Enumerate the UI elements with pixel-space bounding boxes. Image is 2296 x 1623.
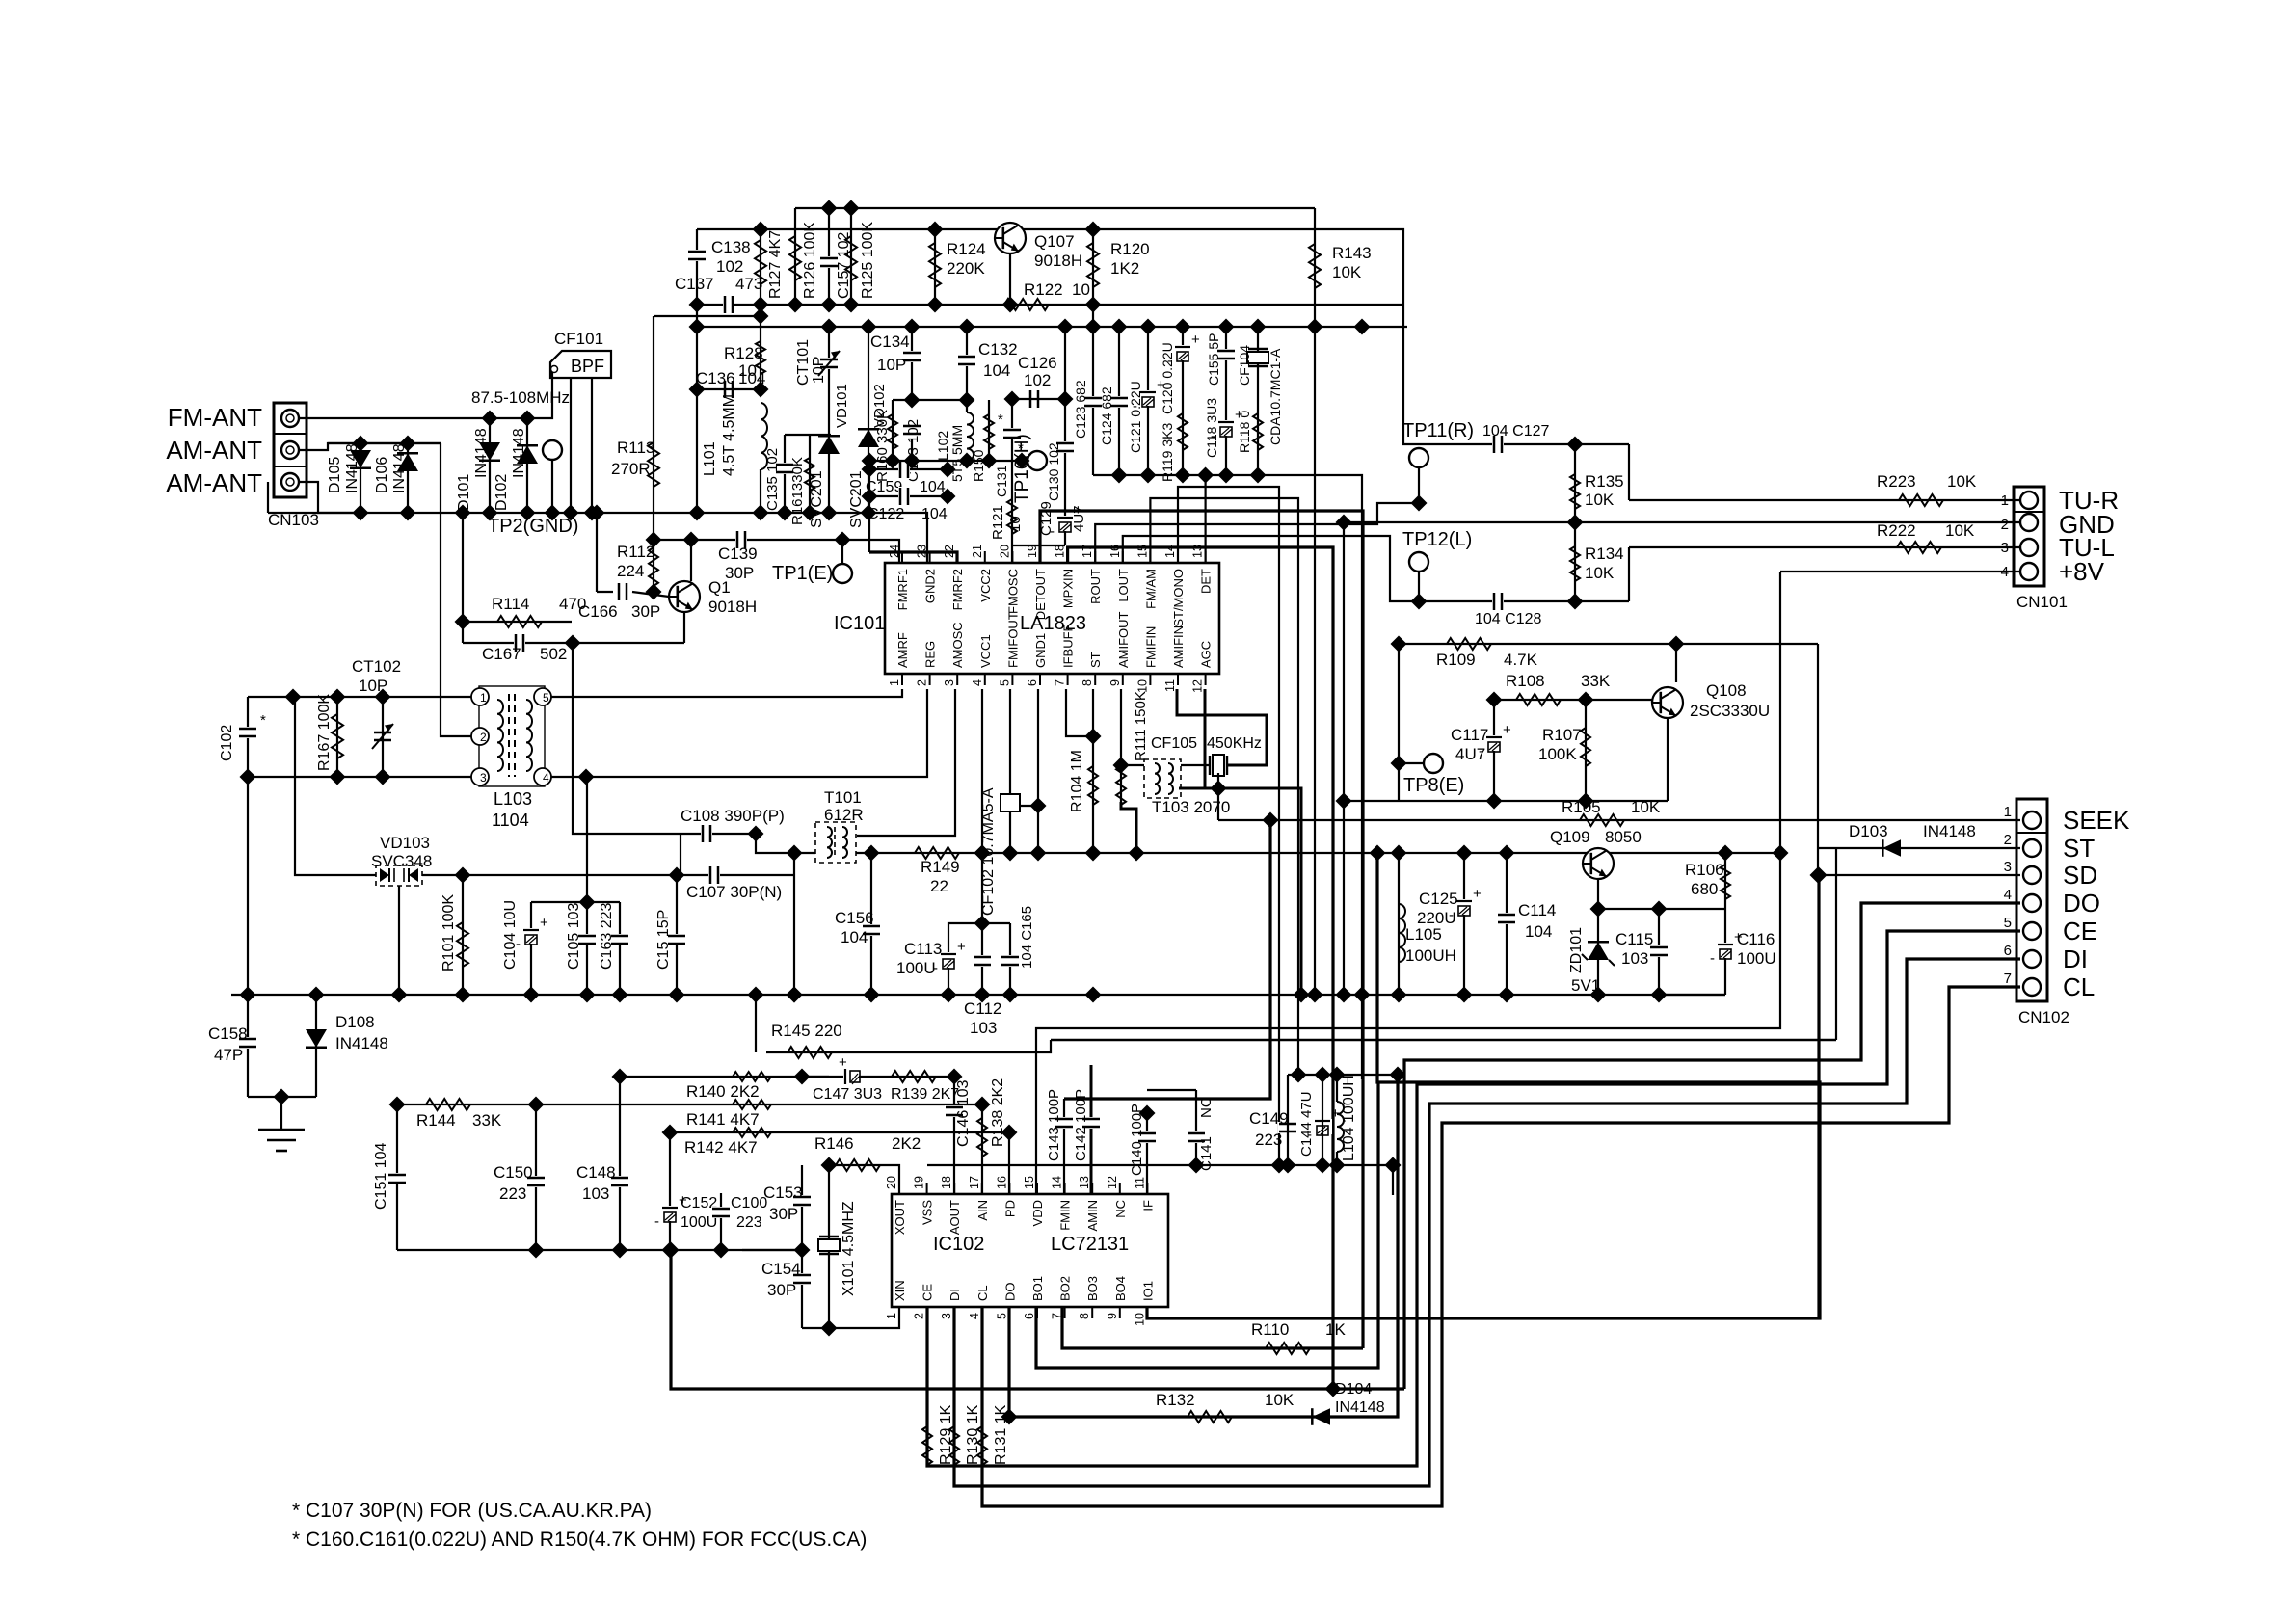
bus j1019 (974, 987, 991, 1003)
IC102 bottom pin 10 stub (1146, 1307, 1148, 1318)
IC102 top pin 16 stub (1008, 1183, 1010, 1194)
svg-text:X101 4.5MHZ: X101 4.5MHZ (841, 1201, 857, 1296)
connector CN101 (2014, 487, 2068, 611)
C108 wire (681, 833, 756, 835)
resistor R145 (771, 1022, 842, 1058)
c148 j (612, 1069, 628, 1085)
bbus 695 (662, 1242, 679, 1259)
resistor R143 (1309, 244, 1372, 288)
svg-text:R120: R120 (1110, 240, 1150, 258)
svg-text:VDD: VDD (1030, 1200, 1045, 1226)
svg-text:BO1: BO1 (1030, 1276, 1045, 1301)
svg-text:CL: CL (975, 1285, 990, 1301)
svg-text:R105: R105 (1562, 798, 1601, 816)
n415b (959, 392, 975, 409)
bus end (1659, 994, 1725, 996)
q108 base link (1651, 700, 1653, 703)
IC102 bottom pin 3 stub (953, 1307, 955, 1318)
svg-text:14: 14 (1051, 1176, 1064, 1189)
resistor R144 (416, 1099, 502, 1130)
svg-text:C114: C114 (1518, 901, 1556, 919)
R134 col (1574, 522, 1576, 601)
DETOUT wire (1040, 511, 1363, 1348)
CL path (982, 987, 2020, 1506)
ct101 bus (821, 505, 838, 521)
r149 ja (864, 845, 880, 862)
transformer T103 (1144, 759, 1230, 816)
svg-text:IN4148: IN4148 (511, 428, 527, 478)
IC U102 LC72131 body (885, 1176, 1168, 1326)
svg-text:DI: DI (2063, 945, 2088, 973)
svg-text:R142 4K7: R142 4K7 (684, 1138, 758, 1157)
c127 j (1567, 437, 1584, 453)
capacitor C113 (896, 939, 966, 977)
svg-text:17: 17 (968, 1176, 981, 1189)
D103 wire (1818, 847, 2020, 849)
resistor R132 (1156, 1391, 1295, 1423)
resistor R109 (1436, 638, 1538, 669)
svg-text:Q109: Q109 (1550, 828, 1590, 846)
svg-text:*: * (260, 712, 266, 729)
n414a (1004, 391, 1021, 408)
svg-text:* C160.C161(0.022U) AND R150(: * C160.C161(0.022U) AND R150(4.7K OHM) F… (292, 1529, 867, 1551)
capacitor C124 (1099, 386, 1129, 445)
svg-text:C113: C113 (904, 940, 942, 958)
svg-text:C120 0.22U: C120 0.22U (1160, 342, 1175, 414)
svg-text:473: 473 (735, 275, 762, 293)
capacitor C166 (578, 582, 660, 621)
svg-text:223: 223 (1255, 1131, 1282, 1149)
svg-text:6: 6 (1026, 679, 1039, 686)
capacitor C147 (813, 1054, 882, 1103)
svg-text:GND2: GND2 (923, 569, 938, 603)
C165 col (1009, 923, 1011, 995)
plus8 r109 (1773, 845, 1789, 862)
svg-text:223: 223 (499, 1184, 526, 1203)
svg-text:C123 682: C123 682 (1073, 380, 1088, 439)
C134 col (911, 327, 913, 352)
svg-text:C150: C150 (494, 1163, 533, 1182)
C135 col (784, 435, 786, 513)
svg-text:ROUT: ROUT (1088, 569, 1103, 604)
svg-text:10: 10 (1007, 516, 1024, 532)
svg-text:3: 3 (943, 679, 956, 686)
svg-text:IN4148: IN4148 (1923, 822, 1976, 840)
svg-text:22: 22 (943, 545, 956, 558)
svg-text:FMIN: FMIN (1058, 1200, 1073, 1231)
gnd stub (280, 1097, 282, 1130)
svg-text:R126 100K: R126 100K (802, 222, 818, 299)
connector CN103 (268, 403, 319, 529)
TU-R corner (1628, 444, 1630, 500)
capacitor C107 (686, 865, 782, 901)
gnd junction d106 (400, 505, 416, 521)
r109 right corner (1817, 644, 1819, 875)
tuning bottom right (543, 689, 927, 777)
rail C (697, 304, 1403, 306)
w1209 c (1329, 1157, 1346, 1174)
capacitor C102 (219, 712, 266, 761)
svg-text:C104 10U: C104 10U (502, 900, 519, 970)
resistor R114 (492, 595, 586, 627)
c153 j (794, 1242, 811, 1259)
capacitor C105 (566, 903, 597, 970)
wire 1441 (671, 1250, 1404, 1389)
x1318 col (1064, 820, 1270, 1099)
x1394 col (1343, 522, 1345, 995)
T103 in (1121, 764, 1144, 766)
svg-text:C130 102: C130 102 (1046, 442, 1061, 501)
IC102 top pin 11 stub (1146, 1183, 1148, 1194)
svg-text:5T5 5MM: 5T5 5MM (949, 425, 965, 482)
left col to gnd (247, 995, 249, 1097)
svg-text:TP12(L): TP12(L) (1402, 529, 1472, 550)
pin16 col (1008, 1132, 1010, 1194)
svg-text:2: 2 (2001, 517, 2009, 533)
svg-text:LA1823: LA1823 (1020, 613, 1086, 634)
svg-text:DO: DO (1002, 1283, 1017, 1302)
svg-text:8: 8 (1081, 679, 1094, 686)
t101 left col (793, 853, 795, 995)
svg-text:BO3: BO3 (1085, 1276, 1100, 1301)
capacitor C144 (1298, 1091, 1340, 1157)
LC72131 label (1051, 1234, 1129, 1255)
C156 col (870, 853, 872, 995)
capacitor C130 (1046, 441, 1075, 501)
IC101 top pin 20 stub (1011, 551, 1013, 563)
VD102 col (868, 327, 869, 513)
wire 1115 (1288, 1074, 1398, 1076)
w943 b (1651, 901, 1668, 918)
R120 col (1092, 229, 1094, 327)
TP1 stub (841, 540, 843, 564)
C117 col (1493, 700, 1495, 801)
SD wire (1819, 874, 2020, 876)
R145 wire (755, 995, 757, 1052)
cf105 j (1211, 781, 1227, 797)
bbus 748 (713, 1242, 730, 1259)
filter CF104 (1237, 345, 1268, 386)
capacitor C154 (761, 1260, 812, 1299)
C148 col (619, 1077, 621, 1250)
C166 wire2 (632, 592, 669, 597)
IC101 bottom pin 1 stub (901, 674, 903, 685)
svg-text:10P: 10P (811, 357, 827, 384)
resistor R108 (1506, 672, 1611, 705)
railC x1134 (1085, 297, 1102, 313)
svg-text:223: 223 (736, 1214, 762, 1231)
svg-text:18: 18 (940, 1176, 953, 1189)
L103 pin 3 (471, 768, 489, 785)
R143 col (1314, 208, 1316, 995)
diode D106 (374, 443, 418, 493)
svg-text:R167 100K: R167 100K (316, 694, 333, 771)
svg-text:R127 4K7: R127 4K7 (767, 230, 784, 299)
svg-text:IO1: IO1 (1140, 1281, 1155, 1301)
x1451 col (1398, 644, 1400, 801)
gnd junction d101 (482, 505, 498, 521)
w831 a (1336, 793, 1352, 810)
C166 left (596, 513, 598, 592)
note line2 (292, 1529, 867, 1551)
wire 1297 left (742, 1249, 802, 1251)
capacitor C128 (1475, 592, 1541, 627)
capacitor C159 (898, 460, 910, 479)
C127 wire (1419, 443, 1629, 445)
capacitor C156 (835, 909, 881, 946)
svg-text:5: 5 (995, 1313, 1008, 1319)
R125 col (850, 208, 852, 305)
BO1 wire (1036, 1082, 1378, 1368)
r108 jb (1578, 692, 1594, 708)
tp16 j (1014, 453, 1030, 469)
IC101 bottom pin 9 stub (1122, 674, 1124, 685)
svg-text:CN102: CN102 (2018, 1008, 2069, 1026)
svg-text:C142 100P: C142 100P (1073, 1089, 1089, 1161)
wire CF101 pin2 (570, 378, 572, 513)
q107 e j (1002, 297, 1019, 313)
gnd1 885 (1030, 845, 1047, 862)
diode D108 (306, 1013, 388, 1052)
svg-text:IC101: IC101 (834, 613, 885, 634)
CT101 col (828, 327, 830, 513)
VD103 gnd (398, 886, 400, 995)
wire D102 (526, 418, 528, 513)
w1209 a (1280, 1157, 1296, 1174)
resistor R129 (922, 1404, 954, 1465)
test point TP1(E) (772, 563, 852, 584)
svg-text:2: 2 (916, 679, 929, 686)
svg-text:IC102: IC102 (933, 1234, 984, 1255)
svg-text:9018H: 9018H (1034, 252, 1082, 270)
t101 feed j (787, 845, 803, 862)
svg-text:C118 3U3: C118 3U3 (1204, 398, 1219, 458)
capacitor C135 (764, 448, 794, 511)
svg-text:CT101: CT101 (795, 339, 812, 386)
bus j1451 (1391, 987, 1407, 1003)
c139 node (646, 532, 662, 548)
bottom bus (397, 1249, 802, 1251)
svg-text:C121 0.22U: C121 0.22U (1128, 381, 1143, 453)
c105 j (579, 894, 596, 911)
capacitor C108 (681, 807, 785, 843)
capacitor C125 (1417, 886, 1482, 927)
svg-text:CF105: CF105 (1151, 735, 1197, 752)
x101 bottom (802, 1307, 899, 1328)
gnd junction cf101a (563, 505, 579, 521)
svg-text:FMRF1: FMRF1 (895, 569, 910, 610)
svg-text:D106: D106 (374, 457, 390, 493)
w1115 1347 (1291, 1067, 1307, 1083)
svg-text:C15 15P: C15 15P (655, 910, 672, 970)
svg-text:104: 104 (841, 928, 868, 946)
label SVC201 b (848, 470, 865, 528)
svg-text:R144: R144 (416, 1111, 456, 1130)
c163 link (587, 901, 620, 903)
railC x970 (927, 297, 944, 313)
capacitor C129 (1038, 501, 1087, 540)
svg-text:C138: C138 (711, 238, 751, 256)
wire AM-ANT2 to gnd bus (299, 482, 360, 513)
capacitor C138 (687, 238, 751, 276)
svg-text:C125: C125 (1419, 890, 1458, 908)
TU-L wire (1629, 546, 2020, 548)
svg-text:R125 100K: R125 100K (860, 222, 876, 299)
t101 bus j (787, 987, 803, 1003)
node AM-ANT diode tap2 (400, 436, 416, 452)
R146 wire (829, 1165, 899, 1194)
svg-text:R135: R135 (1585, 472, 1624, 491)
gnd junction d102 (520, 505, 536, 521)
resistor R139 (891, 1071, 959, 1103)
tp12 stub (1418, 572, 1420, 601)
C167 wire (463, 642, 684, 644)
svg-text:R132: R132 (1156, 1391, 1195, 1409)
svg-text:MPXIN: MPXIN (1061, 569, 1076, 608)
R121 col (1011, 461, 1013, 545)
test point TP16(H) (1012, 434, 1047, 503)
C138 col (696, 229, 698, 513)
resistor R140 (686, 1072, 771, 1101)
rail885 1790 (1718, 845, 1734, 862)
bus j702 (669, 987, 685, 1003)
bus j480 (455, 987, 471, 1003)
filter CF105 (1151, 735, 1262, 776)
svg-text:5: 5 (543, 691, 549, 705)
C139 wire (654, 540, 899, 563)
gnd bus left (268, 513, 927, 563)
svg-text:R122: R122 (1024, 280, 1063, 299)
R111 col (1120, 689, 1122, 802)
ST col (1092, 689, 1094, 736)
resistor R104 (1069, 750, 1098, 812)
C105 col (586, 777, 588, 995)
svg-text:33K: 33K (472, 1111, 502, 1130)
n493 1305 (1250, 467, 1267, 484)
transistor Q1 (669, 578, 757, 616)
capacitor C127 (1482, 423, 1549, 454)
CN102 pin 2 num (2004, 832, 2012, 848)
R150 col (988, 400, 990, 461)
svg-text:R108: R108 (1506, 672, 1545, 690)
svg-text:+: + (1191, 332, 1200, 348)
svg-text:C139: C139 (718, 545, 758, 563)
L104 col (1336, 1075, 1338, 1102)
svg-text:2: 2 (2004, 832, 2012, 848)
svg-text:C148: C148 (576, 1163, 616, 1182)
rail885 1451 (1391, 845, 1407, 862)
railD j946 (904, 319, 921, 335)
svg-text:2: 2 (480, 731, 487, 744)
R142 wire (670, 1131, 1009, 1133)
svg-text:224: 224 (617, 562, 644, 580)
svg-text:R106: R106 (1685, 861, 1724, 879)
svg-text:SEEK: SEEK (2063, 806, 2130, 835)
bus j1658 (1590, 987, 1607, 1003)
C104 col (530, 902, 532, 995)
svg-text:R160 330K: R160 330K (874, 410, 891, 482)
svg-text:R139 2K7: R139 2K7 (891, 1086, 959, 1103)
n493 1227 (1175, 467, 1191, 484)
svg-text:10P: 10P (359, 677, 387, 695)
svg-text:10K: 10K (1585, 564, 1615, 582)
svg-text:AMIN: AMIN (1085, 1200, 1100, 1232)
svg-text:8050: 8050 (1605, 828, 1642, 846)
wire TP2 stub (551, 460, 553, 513)
R114 col (462, 513, 464, 643)
L103 pin 2 (471, 728, 489, 745)
wire am-ant diode row (328, 442, 441, 444)
VCC1 col (981, 689, 983, 995)
wire CF101 pin3 (591, 378, 593, 513)
bus j1721 (1651, 987, 1668, 1003)
capacitor C146 (945, 1080, 972, 1147)
svg-text:CE: CE (921, 1284, 935, 1301)
svg-text:IN4148: IN4148 (473, 428, 490, 478)
c147 wire (802, 1076, 829, 1078)
ROUT wire (1095, 503, 1419, 563)
svg-text:C115: C115 (1615, 930, 1653, 948)
capacitor C163 (599, 903, 629, 970)
svg-text:C154: C154 (761, 1260, 801, 1278)
LOUT wire (1123, 536, 1418, 601)
C157 col (828, 208, 830, 305)
IC101 label (834, 613, 885, 634)
IC101 bottom pin 8 stub (1094, 674, 1096, 685)
C100 col (720, 1193, 722, 1250)
IC101 bottom pin 5 stub (1011, 674, 1013, 685)
capacitor C122 (868, 487, 948, 522)
resistor R124 (929, 240, 986, 287)
c108 j (748, 826, 764, 842)
svg-text:23: 23 (916, 545, 929, 558)
svg-text:IF: IF (1140, 1200, 1155, 1211)
resistor R141 (686, 1100, 771, 1129)
svg-text:104: 104 (920, 479, 946, 495)
IC102 bottom pin 8 stub (1091, 1307, 1093, 1318)
IC102 top pin 20 stub (898, 1183, 900, 1194)
svg-text:R222: R222 (1877, 521, 1916, 540)
IC101 top pin 24 stub (901, 551, 903, 563)
railD j1364 (1307, 319, 1323, 335)
IC101 bottom pin 11 stub (1177, 674, 1179, 685)
svg-text:6: 6 (2004, 943, 2012, 959)
svg-text:BO2: BO2 (1058, 1276, 1073, 1301)
capacitor C137 (675, 275, 762, 314)
DET wire (1204, 475, 1206, 563)
c159 r (940, 462, 956, 478)
capacitor C153 (763, 1184, 812, 1223)
svg-text:470: 470 (559, 595, 586, 613)
capacitor C121 (1128, 377, 1165, 453)
railC x789 (753, 297, 769, 313)
c104 link (531, 901, 587, 903)
svg-text:2K2: 2K2 (892, 1134, 921, 1153)
CE path (927, 931, 2020, 1466)
D108 col (315, 995, 317, 1097)
svg-text:10: 10 (1133, 1313, 1146, 1326)
pin22 wire (869, 552, 957, 563)
svg-text:C137: C137 (675, 275, 714, 293)
svg-text:104 C128: 104 C128 (1475, 611, 1541, 627)
gnd wire (248, 1096, 316, 1098)
svg-text:R223: R223 (1877, 472, 1916, 491)
CT102 col (382, 697, 384, 777)
svg-text:C144 47U: C144 47U (1298, 1091, 1315, 1157)
svg-text:C156: C156 (835, 909, 874, 927)
wire FM-ANT (299, 372, 552, 418)
svg-text:TP11(R): TP11(R) (1402, 420, 1474, 441)
